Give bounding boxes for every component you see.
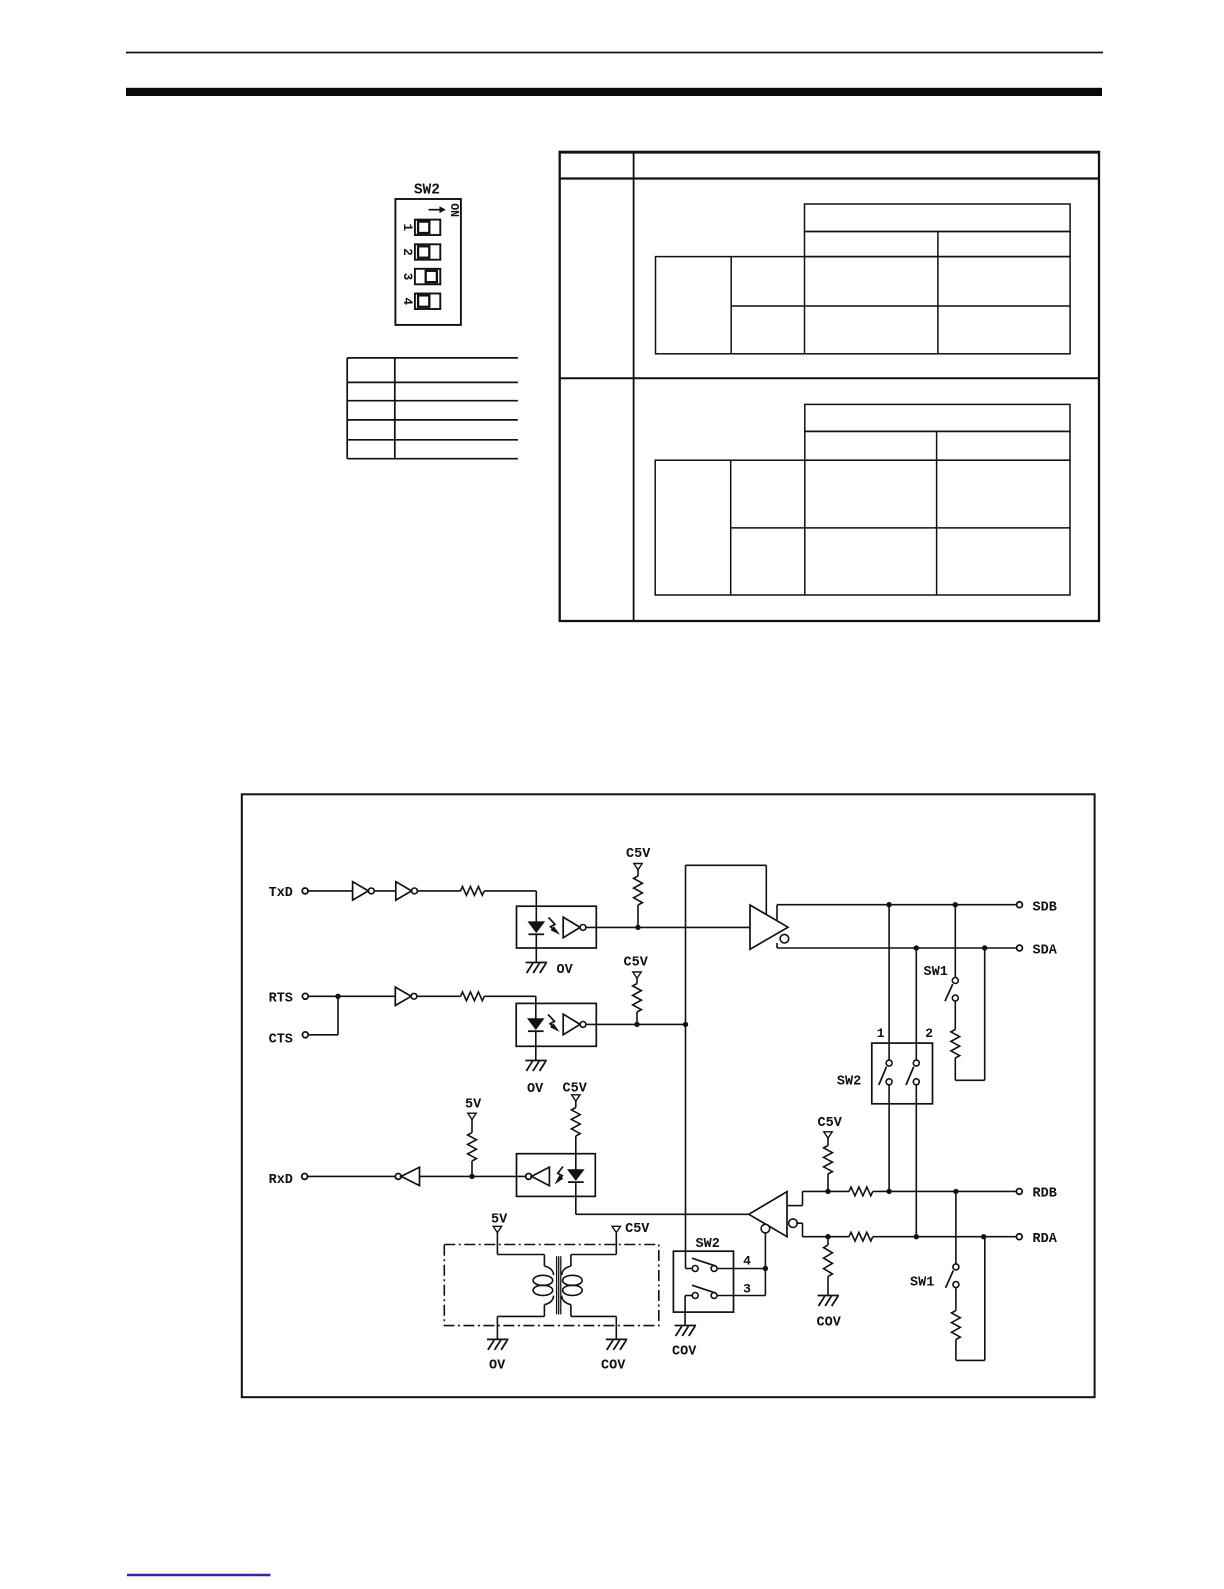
node RDA label (1033, 1232, 1058, 1247)
label 0V at transformer (489, 1359, 506, 1374)
svg-text:3: 3 (400, 273, 414, 281)
optocoupler PC2 LED (528, 1003, 544, 1046)
DIP switch slider 2 (415, 244, 440, 259)
power C5V pull-up label (RTS channel) (624, 956, 649, 971)
power C5V pull-up label (TxD channel) (626, 847, 651, 862)
pin 3 label (743, 1281, 751, 1296)
svg-text:C5V: C5V (626, 847, 651, 862)
node RDB label (1033, 1187, 1057, 1202)
resistor R4 (461, 992, 485, 1001)
power C5V label (RxD channel) (563, 1082, 588, 1097)
inverter U1b (396, 882, 418, 900)
optocoupler PC2 light arrow (548, 1015, 560, 1032)
node TxD terminal (302, 888, 308, 894)
switch SW2-2 (906, 1060, 919, 1085)
label C0V at R11 (817, 1316, 842, 1331)
label C0V at transformer (601, 1359, 626, 1374)
junction enable / pin 4 (763, 1266, 768, 1271)
power C5V terminal (RxD channel) (572, 1095, 580, 1101)
power 5V pull-up label (RxD) (465, 1098, 482, 1113)
wire RTS to inverter U1c (308, 995, 395, 997)
svg-text:5V: 5V (465, 1098, 482, 1113)
node RDA terminal (1016, 1234, 1022, 1240)
transformer T1 core (557, 1256, 561, 1314)
junction PC2 output / R5 (634, 1022, 639, 1027)
svg-text:SDB: SDB (1033, 901, 1057, 916)
node RxD label (269, 1173, 293, 1188)
wire R7 to PC3 LED (575, 1136, 577, 1154)
resistor R12 terminator (952, 1311, 961, 1340)
resistor R10 (RDA series) (849, 1232, 873, 1241)
switch SW2-4 (692, 1258, 717, 1271)
wire R8 to RDB line (827, 1174, 829, 1191)
resistor R1 (461, 887, 485, 896)
DIP switch ON arrow (429, 206, 446, 213)
DIP switch pin 1 number (400, 224, 414, 232)
svg-text:RxD: RxD (269, 1173, 293, 1188)
resistor R7 (571, 1101, 580, 1136)
svg-text:COV: COV (672, 1345, 697, 1360)
svg-text:4: 4 (400, 297, 414, 305)
resistor R2 pull-up (634, 870, 643, 905)
junction RxD / R6 (469, 1174, 474, 1179)
svg-text:SW2: SW2 (414, 183, 440, 199)
wire R3 to SDA line (955, 948, 984, 1080)
junction RDB / R8 (825, 1189, 830, 1194)
switch block SW2 pins 1-2 body (872, 1043, 933, 1104)
svg-text:ON: ON (447, 203, 460, 217)
svg-text:RTS: RTS (269, 992, 293, 1007)
DIP switch ON text (447, 203, 460, 217)
power C5V label (transformer) (625, 1222, 650, 1237)
wire SW2-2 to RDA line (915, 1085, 917, 1237)
power C5V terminal (transformer) (612, 1226, 620, 1232)
wire SW2-1 to RDB line (888, 1085, 890, 1192)
junction RDA / R11 pulldown (825, 1234, 830, 1239)
wire secondary to C5V (571, 1233, 616, 1255)
svg-text:SW2: SW2 (837, 1075, 861, 1090)
inverter U1d (output to left) (395, 1167, 419, 1185)
wire U1b to resistor R1 (418, 890, 461, 892)
svg-text:COV: COV (817, 1316, 842, 1331)
receiver U3 (749, 1192, 787, 1237)
wire R1 to optocoupler PC1 (484, 891, 536, 906)
resistor R9 (RDB series) (849, 1187, 873, 1196)
resistor R8 pull-up (824, 1138, 833, 1174)
wire U1c to resistor R4 (417, 995, 461, 997)
svg-text:4: 4 (743, 1253, 751, 1268)
ground 0V at PC1 (526, 948, 548, 973)
wire SDA line (777, 943, 1017, 948)
switch SW2-3 (692, 1285, 717, 1298)
wire SW1 receive to resistor R12 (955, 1288, 957, 1311)
switch SW2-1 (879, 1060, 892, 1085)
svg-text:5V: 5V (491, 1213, 508, 1228)
power 5V label (transformer) (491, 1213, 508, 1228)
node RxD terminal (302, 1174, 308, 1180)
optocoupler PC1 body (517, 906, 597, 948)
resistor R5 pull-up (633, 978, 642, 1012)
DIP switch pin 2 number (400, 248, 414, 256)
svg-text:1: 1 (400, 224, 414, 232)
power C5V terminal (RDB) (824, 1132, 832, 1138)
label C0V at SW2 block (672, 1345, 697, 1360)
DC-DC converter isolation boundary (444, 1245, 659, 1326)
label 0V at PC2 (527, 1082, 544, 1097)
switch block SW2 pins 3-4 body (673, 1251, 733, 1312)
node CTS terminal (302, 1032, 308, 1038)
wire R4 to optocoupler PC2 (484, 996, 536, 1003)
svg-text:OV: OV (527, 1082, 544, 1097)
optocoupler PC3 output buffer (to left) (526, 1167, 550, 1186)
wire RDB to SW1 receive (955, 1191, 957, 1264)
switch SW1 (send side) (945, 978, 958, 1002)
svg-text:SDA: SDA (1033, 944, 1058, 959)
DIP switch pin 4 number (400, 297, 414, 305)
DIP switch slider 3 (415, 269, 440, 285)
svg-text:SW1: SW1 (910, 1276, 934, 1291)
optocoupler PC3 LED (568, 1154, 584, 1197)
pin 1 label (877, 1026, 885, 1041)
svg-text:1: 1 (877, 1026, 885, 1041)
ground 0V at PC2 (525, 1046, 547, 1071)
resistor R11 pulldown (824, 1237, 833, 1277)
wire RDA line to terminal (873, 1236, 1017, 1238)
DIP switch slider 4 (415, 294, 440, 310)
switch SW1 (receive side) (946, 1264, 959, 1288)
power C5V pull-up label (RDB) (818, 1116, 843, 1131)
svg-text:OV: OV (557, 963, 574, 978)
junction SDA / SW2 pin 2 (914, 945, 919, 950)
wire enable node to SW2 pin 4 (686, 1024, 693, 1268)
node SDA terminal (1017, 945, 1023, 951)
node RTS label (269, 992, 293, 1007)
optocoupler PC2 body (516, 1003, 596, 1046)
junction PC1 output / R2 (635, 925, 640, 930)
wire R12 to RDA line (956, 1237, 985, 1361)
svg-text:SW1: SW1 (924, 965, 948, 980)
optocoupler PC1 output buffer (563, 917, 586, 938)
svg-text:OV: OV (489, 1359, 506, 1374)
wire SW1 to resistor R3 (954, 1001, 956, 1030)
node RTS terminal (302, 993, 308, 999)
ground 0V at transformer (487, 1339, 509, 1350)
inverter U1c (395, 987, 417, 1005)
transformer T1 primary winding (533, 1255, 553, 1317)
wire primary to 0V ground (497, 1316, 544, 1339)
pin 2 label (925, 1026, 933, 1041)
switch block SW2 pins 1-2 label (837, 1075, 861, 1090)
svg-text:TxD: TxD (269, 886, 293, 901)
node RDB terminal (1016, 1189, 1022, 1195)
ground C0V at transformer (606, 1339, 628, 1350)
junction RDA / SW1 return (981, 1234, 986, 1239)
svg-text:C5V: C5V (818, 1116, 843, 1131)
svg-text:SW2: SW2 (696, 1237, 720, 1252)
receiver U3 enable bubble (761, 1224, 770, 1233)
DIP switch SW2 body (395, 199, 461, 325)
junction RDB / SW1 receive (953, 1189, 958, 1194)
wire R6 to RxD line (471, 1161, 473, 1176)
svg-text:3: 3 (743, 1281, 751, 1296)
power C5V terminal (TxD channel) (634, 864, 642, 870)
junction SDB / SW1 (953, 902, 958, 907)
svg-text:RDA: RDA (1033, 1232, 1058, 1247)
wire SW2-4 to receiver enable (717, 1233, 765, 1296)
DIP switch slider 1 (415, 220, 440, 235)
junction SDA / R3 return (982, 945, 987, 950)
optocoupler PC2 output buffer (563, 1014, 586, 1035)
optocoupler PC1 light arrow (549, 918, 561, 935)
node SDA label (1033, 944, 1058, 959)
node SDB label (1033, 901, 1057, 916)
wire RDB line to terminal (873, 1190, 1017, 1192)
wire PC3 LED to receiver U3 input (576, 1196, 749, 1214)
svg-text:RDB: RDB (1033, 1187, 1057, 1202)
node CTS label (269, 1033, 293, 1048)
wire 5V to primary (497, 1233, 544, 1255)
DIP switch SW2 label (414, 183, 440, 199)
inverter U1a (353, 882, 375, 900)
switch SW1 label (send side) (924, 965, 948, 980)
svg-text:C5V: C5V (625, 1222, 650, 1237)
optocoupler PC3 light arrow (555, 1167, 564, 1185)
pin 4 label (743, 1253, 751, 1268)
resistor R3 terminator (951, 1030, 960, 1059)
driver U2 (750, 905, 788, 949)
optocoupler PC3 body (517, 1154, 596, 1197)
wire SW2-3 to ground (685, 1296, 692, 1326)
ground C0V at R11 (818, 1277, 840, 1307)
wire U3 B-input jog to RDB line (787, 1191, 849, 1205)
transformer T1 secondary winding (562, 1255, 583, 1317)
wire SDB to SW2 pin 1 (888, 905, 890, 1060)
svg-text:CTS: CTS (269, 1033, 293, 1048)
wire SDA to SW2 pin 2 (915, 948, 917, 1060)
wire PC2 output to enable node (586, 1023, 686, 1025)
switch SW1 label (receive side) (910, 1276, 934, 1291)
junction RDB / SW2-1 (886, 1189, 891, 1194)
wire SDB to SW1 (954, 905, 956, 978)
wire SW2-3 to enable net (717, 1295, 765, 1297)
node SDB terminal (1017, 902, 1023, 908)
switch block SW2 pins 3-4 label (696, 1237, 720, 1252)
node TxD label (269, 886, 293, 901)
wire RxD to inverter U1d (308, 1175, 396, 1177)
power C5V terminal (RTS channel) (633, 972, 641, 978)
DIP switch pin 3 number (400, 273, 414, 281)
wire CTS loopback (308, 996, 338, 1035)
junction RTS / CTS loopback (335, 994, 340, 999)
receiver U3 side bubble (789, 1219, 798, 1228)
wire U3 A-input jog to RDA line (796, 1223, 849, 1237)
resistor R6 pull-up (468, 1120, 477, 1162)
label 0V at PC1 (557, 963, 574, 978)
junction SDB / SW2 pin 1 (886, 902, 891, 907)
junction RDA / SW2-2 (914, 1234, 919, 1239)
wire secondary to C0V ground (571, 1316, 616, 1339)
wire driver enable from RTS channel node (686, 865, 767, 1024)
optocoupler PC1 LED (529, 906, 545, 948)
driver U2 inverted output bubble (780, 934, 789, 943)
ground C0V at SW2 block (675, 1326, 697, 1337)
power 5V terminal (transformer) (493, 1226, 501, 1232)
junction enable node (683, 1022, 688, 1027)
svg-text:COV: COV (601, 1359, 626, 1374)
wire U1d to PC3 output (420, 1175, 526, 1177)
svg-text:2: 2 (925, 1026, 933, 1041)
wire U1a to U1b (374, 890, 396, 892)
wire R5 to PC2 output node (636, 1012, 638, 1024)
wire PC1 output to driver U2 input (586, 926, 750, 928)
svg-text:2: 2 (400, 248, 414, 256)
wire SDB line (777, 905, 1017, 921)
power 5V terminal (RxD) (468, 1113, 476, 1119)
svg-text:C5V: C5V (624, 956, 649, 971)
wire TxD to inverter U1a (308, 890, 353, 892)
wire R2 to PC1 output node (637, 905, 639, 927)
